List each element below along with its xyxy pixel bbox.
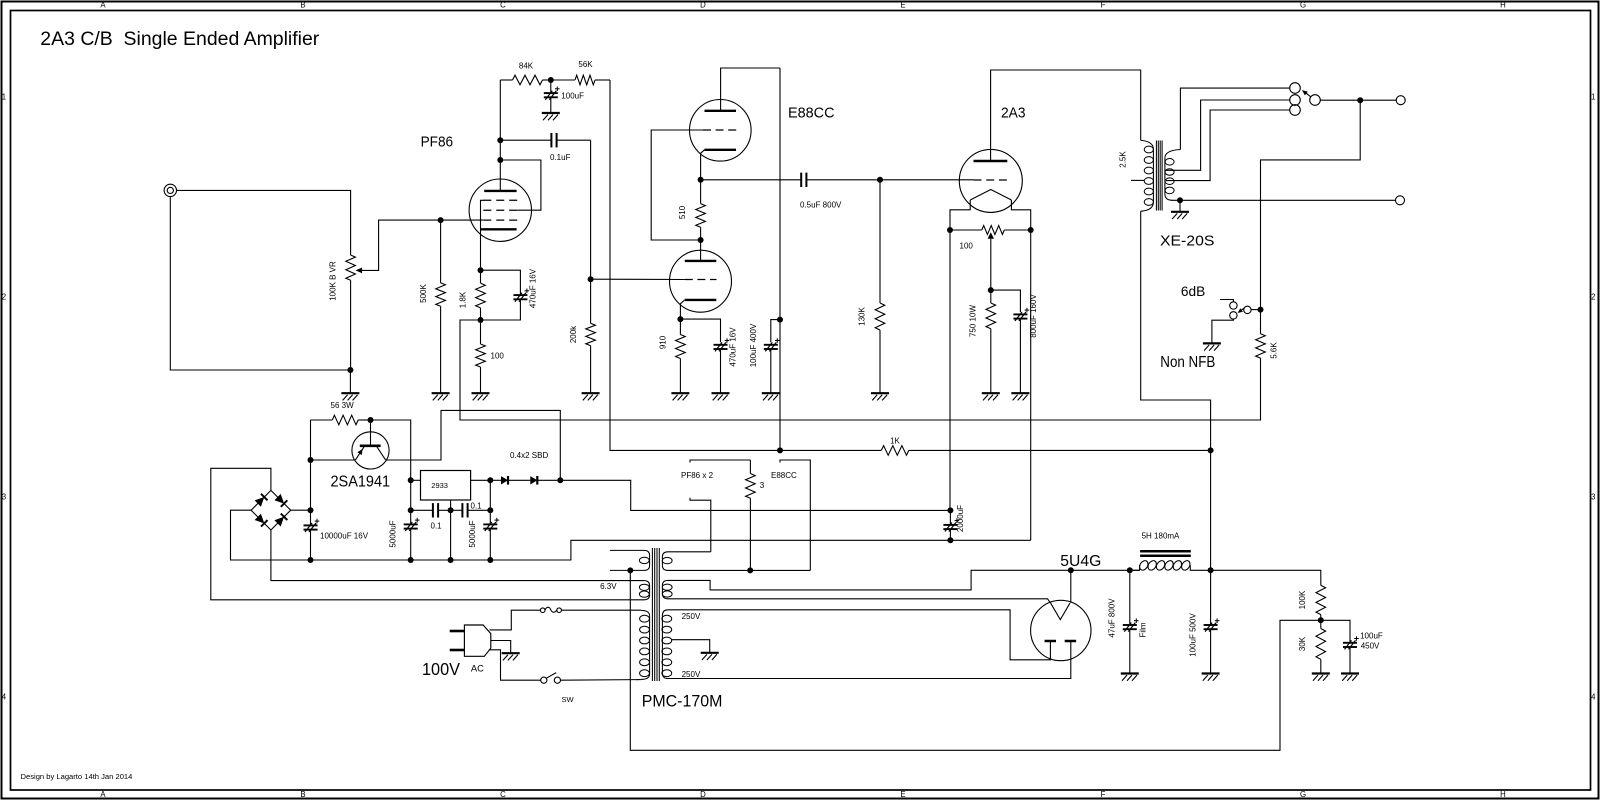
wire jack ground return <box>170 197 347 370</box>
svg-text:5H 180mA: 5H 180mA <box>1142 532 1180 541</box>
resistor 56K <box>551 60 610 85</box>
capacitor 0.5uF 800V <box>701 173 974 210</box>
wire regulated feed <box>560 480 950 510</box>
transformer XE-20S core <box>1156 141 1162 211</box>
wire plug line <box>490 610 541 630</box>
label 0.4x2 SBD <box>510 451 548 460</box>
svg-text:100V: 100V <box>422 659 460 679</box>
node E88CC lower cathode <box>677 316 683 322</box>
capacitor 10000uF 16V <box>304 460 369 560</box>
resistor 100 PF86 cathode <box>476 320 505 393</box>
switch SW upper <box>540 607 561 612</box>
wire 5V lead A <box>668 570 1071 590</box>
svg-text:470uF 16V: 470uF 16V <box>529 268 538 308</box>
wire bridge AC top <box>211 468 644 600</box>
wire PF86 suppressor-cathode <box>481 200 485 270</box>
hum pot wiper <box>988 232 994 290</box>
svg-text:510: 510 <box>678 205 687 219</box>
ground AC plug <box>502 653 520 660</box>
capacitor 47uF 800V Film <box>1108 570 1148 673</box>
selector contact 4ohm <box>1290 105 1301 116</box>
svg-text:1.8K: 1.8K <box>459 291 468 308</box>
ground 100uF 450V <box>1341 674 1359 681</box>
ground 47uF <box>1121 674 1139 681</box>
label 250V upper <box>682 612 701 621</box>
svg-text:Non NFB: Non NFB <box>1160 354 1215 371</box>
ground 100uF <box>542 113 560 120</box>
wire 2A3 filament right <box>1011 200 1030 540</box>
node plate supply junction <box>1208 447 1214 453</box>
node 5000uF input top <box>408 507 414 513</box>
node regulator gnd rail <box>448 557 454 563</box>
svg-text:5000uF: 5000uF <box>468 520 477 547</box>
label AC <box>471 664 484 675</box>
wire E88CC lower grid <box>591 278 685 280</box>
node 3 ohm return <box>747 567 753 573</box>
resistor 910 <box>659 319 686 393</box>
svg-text:6.3V: 6.3V <box>600 582 617 591</box>
node 5000uF output top <box>487 507 493 513</box>
pot wiper arrow <box>356 220 441 273</box>
svg-text:910: 910 <box>659 335 668 349</box>
switch NFB pole <box>1244 306 1251 313</box>
svg-text:A: A <box>100 790 106 799</box>
svg-text:E: E <box>900 790 905 799</box>
svg-text:SW: SW <box>562 695 575 704</box>
wire B+ line <box>1071 569 1140 571</box>
wire pole to 5.6K <box>1251 309 1260 311</box>
ground 910 <box>671 393 689 400</box>
node 5000uF output bottom <box>487 557 493 563</box>
svg-text:Film: Film <box>1139 622 1148 637</box>
transformer XE-20S secondary <box>1165 150 1181 201</box>
capacitor 0.1uF coupling <box>500 133 590 162</box>
AC plug <box>450 625 491 656</box>
wire base feed <box>371 420 411 480</box>
svg-text:5000uF: 5000uF <box>388 520 397 547</box>
choke 5H 180mA <box>1130 551 1211 571</box>
label 100V <box>422 659 460 679</box>
diode SBD2 <box>509 476 561 485</box>
wire NFB return <box>460 320 1261 420</box>
svg-text:F: F <box>1101 790 1106 799</box>
diode SBD1 <box>490 476 508 485</box>
node PF86 screen tap <box>497 157 503 163</box>
node filament right <box>1028 227 1034 233</box>
svg-text:2A3: 2A3 <box>1001 104 1026 121</box>
node grid junction <box>438 217 444 223</box>
node regulator gnd pin <box>448 507 454 513</box>
wire plug neutral <box>489 650 541 680</box>
svg-text:47uF 800V: 47uF 800V <box>1108 598 1117 638</box>
resistor 500K <box>419 220 446 393</box>
label 2.5K <box>1119 151 1128 168</box>
svg-text:XE-20S: XE-20S <box>1160 233 1214 250</box>
svg-text:B: B <box>300 790 305 799</box>
svg-text:800uF 160V: 800uF 160V <box>1029 294 1038 338</box>
wire filament return <box>950 539 1030 541</box>
svg-text:C: C <box>500 790 506 799</box>
transformer XE-20S primary 2.5K <box>1141 140 1154 211</box>
node 84K-56K junction <box>548 77 554 83</box>
svg-text:3: 3 <box>2 493 6 502</box>
switch 6dB contact <box>1220 300 1237 310</box>
primary tap stub <box>1131 179 1144 181</box>
node base junction <box>368 417 374 423</box>
node diode out <box>557 477 563 483</box>
wire 56 3W to emitter <box>310 420 312 460</box>
selector contact 16ohm <box>1290 83 1301 94</box>
svg-text:100K: 100K <box>1298 590 1307 609</box>
node choke output <box>1208 567 1214 573</box>
wire E88CC upper grid <box>651 130 703 240</box>
label 250V lower <box>682 670 701 679</box>
svg-text:H: H <box>1500 790 1506 799</box>
wire B+ drop E88CC <box>779 68 781 450</box>
capacitor 470uF 16V E88CC <box>680 319 737 393</box>
svg-text:100uF 500V: 100uF 500V <box>1188 613 1197 657</box>
label E88CC <box>788 105 835 122</box>
svg-text:250V: 250V <box>682 670 701 679</box>
wire PF86 screen <box>500 160 541 210</box>
svg-text:3: 3 <box>760 481 765 490</box>
heater bus PF86 <box>681 460 750 480</box>
node filament left <box>947 227 953 233</box>
node NFB node <box>1258 307 1264 313</box>
label XE-20S <box>1160 233 1214 250</box>
wire coupling to E88CC grid <box>590 140 592 279</box>
wire 5V lead B <box>668 599 1051 603</box>
svg-text:E88CC: E88CC <box>788 105 835 122</box>
wire bias to heater winding <box>630 570 1321 750</box>
wire secondary tap 4ohm <box>1166 110 1290 181</box>
wire plug earth <box>491 641 511 653</box>
wire E88CC lower cathode <box>680 300 684 319</box>
capacitor 100uF 400V <box>749 320 780 393</box>
heater bus E88CC <box>771 460 810 570</box>
svg-text:PF86 x 2: PF86 x 2 <box>681 471 714 480</box>
svg-text:F: F <box>1101 1 1106 10</box>
node 47uF tap <box>1127 567 1133 573</box>
svg-text:1: 1 <box>2 93 6 102</box>
switch SW lower <box>541 673 561 684</box>
ground 100uF 400V <box>762 393 780 400</box>
capacitor 100uF 450V <box>1321 620 1383 673</box>
svg-text:100uF: 100uF <box>561 92 584 101</box>
wire B+ to bleeder <box>1211 570 1321 585</box>
svg-text:A: A <box>100 1 106 10</box>
svg-text:0.1: 0.1 <box>471 501 483 510</box>
svg-text:0.1uF: 0.1uF <box>550 153 571 162</box>
svg-text:2: 2 <box>2 293 6 302</box>
ground secondary <box>1171 212 1189 219</box>
resistor 84K <box>500 61 551 85</box>
node 2A3 cathode <box>988 287 994 293</box>
svg-text:6dB: 6dB <box>1181 283 1205 299</box>
svg-text:0.1: 0.1 <box>431 521 443 530</box>
label 5U4G <box>1060 553 1101 570</box>
label 6.3V <box>600 582 617 591</box>
capacitor 5000uF output <box>468 480 499 560</box>
node input ground <box>347 367 353 393</box>
svg-text:0.4x2 SBD: 0.4x2 SBD <box>510 451 548 460</box>
wire secondary tap 8ohm <box>1166 100 1290 170</box>
wire plate supply drop <box>1141 211 1211 570</box>
svg-text:2000uF: 2000uF <box>956 505 965 532</box>
transformer PMC-170M core <box>652 548 659 681</box>
svg-text:450V: 450V <box>1361 642 1380 651</box>
input jack J1 <box>164 184 176 196</box>
ground 500K <box>432 393 450 400</box>
svg-text:470uF 16V: 470uF 16V <box>729 327 738 367</box>
regulator 2933 <box>411 471 491 561</box>
label PMC-170M <box>642 692 723 711</box>
label SW <box>562 695 575 704</box>
potentiometer 100K B VR <box>329 255 356 301</box>
resistor 130K grid <box>858 180 885 393</box>
node 2000uF top <box>947 507 953 513</box>
wire 6.3V top lead <box>668 551 711 553</box>
wire pole to output terminal <box>1320 99 1396 101</box>
svg-text:2: 2 <box>1591 293 1595 302</box>
resistor 750 10W <box>968 290 995 393</box>
svg-text:100K B VR: 100K B VR <box>329 261 338 301</box>
node bleeder tap <box>1318 617 1324 623</box>
wire emitter <box>311 459 356 461</box>
winding 5V rectifier filament <box>662 580 672 598</box>
ground 750 <box>982 393 1000 400</box>
tube E88CC lower triode <box>670 250 732 312</box>
svg-text:E: E <box>900 1 905 10</box>
svg-text:500K: 500K <box>419 283 428 302</box>
node 2A3 grid junction <box>877 177 883 183</box>
wire pot bottom <box>350 280 352 370</box>
ground 30K <box>1312 674 1330 681</box>
selector pole <box>1310 95 1321 106</box>
capacitor 0.1 input <box>411 503 451 530</box>
wire SW lower to primary <box>561 679 641 682</box>
winding 6.3V secondary <box>662 552 672 571</box>
svg-text:750 10W: 750 10W <box>968 305 977 337</box>
svg-text:250V: 250V <box>682 612 701 621</box>
design credit text <box>21 772 133 781</box>
label PF86 <box>421 134 454 151</box>
transistor 2SA1941 <box>352 420 389 469</box>
wire bridge AC bottom <box>271 530 644 581</box>
label Non NFB <box>1160 354 1215 371</box>
wire secondary tap 16ohm <box>1180 88 1289 149</box>
wire 6.3V bottom lead <box>668 569 810 571</box>
svg-text:5.6K: 5.6K <box>1269 342 1278 359</box>
svg-text:2.5K: 2.5K <box>1119 151 1128 168</box>
capacitor 470uF 16V PF86 <box>481 268 538 320</box>
node bias injection <box>627 567 633 573</box>
svg-text:D: D <box>700 790 706 799</box>
ground 470uF E88CC <box>712 393 730 400</box>
ground input <box>341 393 359 400</box>
svg-text:100: 100 <box>491 352 505 361</box>
wire HV upper 250V <box>668 610 1050 660</box>
winding primary 100V <box>640 610 650 679</box>
wire 2A3 plate <box>991 70 1141 161</box>
svg-text:AC: AC <box>471 664 484 675</box>
svg-text:1: 1 <box>1591 93 1595 102</box>
ground 130K <box>871 393 889 400</box>
wire SW upper to primary <box>561 609 641 611</box>
svg-text:2933: 2933 <box>431 481 448 490</box>
svg-text:PMC-170M: PMC-170M <box>642 692 723 711</box>
resistor 1.8K cathode <box>459 270 486 320</box>
wire bridge minus <box>231 510 951 560</box>
svg-text:3: 3 <box>1591 493 1595 502</box>
svg-text:200k: 200k <box>569 325 578 343</box>
bridge rectifier <box>251 490 291 530</box>
wire jack to volume pot <box>177 190 351 255</box>
title text <box>40 29 320 50</box>
tube PF86 <box>469 179 531 241</box>
wire E88CC upper cathode <box>701 150 705 180</box>
node 5000uF input bottom <box>408 557 414 563</box>
svg-text:30K: 30K <box>1298 636 1307 651</box>
winding 6.3V bridge supply <box>639 581 649 600</box>
svg-text:Design by Lagarto 14th Jan 201: Design by Lagarto 14th Jan 2014 <box>21 772 133 781</box>
wire 5U4G filament out <box>1070 570 1072 603</box>
svg-text:4: 4 <box>2 693 7 702</box>
svg-text:PF86: PF86 <box>421 134 454 151</box>
svg-text:2SA1941: 2SA1941 <box>331 474 391 491</box>
svg-text:G: G <box>1300 1 1306 10</box>
node 10000uF minus <box>308 557 314 563</box>
node E88CC cathode out <box>698 177 704 183</box>
ground NFB switch <box>1203 343 1221 350</box>
resistor 30K bleeder <box>1298 620 1326 673</box>
resistor 200k grid leak <box>569 279 595 392</box>
wire HV center tap <box>672 640 710 653</box>
label 5H 180mA <box>1142 532 1180 541</box>
node bridge plus <box>308 507 314 513</box>
ground HV center tap <box>701 653 719 660</box>
wire 2A3 filament left <box>950 200 970 510</box>
wire grid PF86 <box>441 219 484 221</box>
ground 100 <box>472 393 490 400</box>
tube E88CC upper triode <box>690 100 752 162</box>
resistor 56 3W <box>311 401 371 425</box>
selector wiper arrow <box>1302 90 1311 97</box>
winding 6.3V heater elevated <box>610 550 650 570</box>
switch NonNFB contact <box>1212 312 1237 343</box>
svg-text:4: 4 <box>1591 693 1596 702</box>
wire bridge plus <box>291 509 311 511</box>
heater bus return <box>690 498 711 552</box>
node 200k junction <box>588 276 594 282</box>
svg-text:0.5uF 800V: 0.5uF 800V <box>800 200 842 209</box>
node SRPP midpoint <box>698 237 704 243</box>
winding HV secondary 250-0-250 <box>662 610 672 679</box>
capacitor 100uF 500V <box>1188 570 1219 673</box>
node 2000uF bottom <box>947 537 953 543</box>
wire NFB takeoff <box>1261 100 1361 309</box>
node emitter junction <box>308 457 314 463</box>
svg-text:D: D <box>700 1 706 10</box>
wire HV lower 250V <box>668 641 1071 679</box>
svg-text:5U4G: 5U4G <box>1060 553 1101 570</box>
svg-text:56 3W: 56 3W <box>331 401 355 410</box>
selector contact 8ohm <box>1290 95 1301 106</box>
node regulator output <box>487 477 493 483</box>
ground 200k <box>582 393 600 400</box>
node PF86 cathode NFB node <box>478 317 484 323</box>
capacitor 800uF 160V <box>991 290 1038 393</box>
svg-text:G: G <box>1300 790 1306 799</box>
label 6dB <box>1181 283 1205 299</box>
tube 5U4G <box>1031 600 1091 660</box>
svg-text:B: B <box>300 1 305 10</box>
resistor 3 ohm <box>746 460 765 570</box>
svg-text:56K: 56K <box>578 60 593 69</box>
svg-text:84K: 84K <box>519 61 534 70</box>
svg-text:100uF 400V: 100uF 400V <box>749 323 758 367</box>
svg-text:100uF: 100uF <box>1360 632 1383 641</box>
node B+ bypass tap <box>777 317 783 323</box>
capacitor 0.1 output <box>451 501 491 517</box>
svg-text:10000uF 16V: 10000uF 16V <box>320 532 369 541</box>
svg-text:100: 100 <box>960 241 974 250</box>
label 2SA1941 <box>331 474 391 491</box>
svg-text:H: H <box>1500 1 1506 10</box>
switch NFB wiper <box>1238 308 1245 313</box>
resistor 1K dropper <box>610 80 1211 455</box>
ground 800uF <box>1011 393 1029 400</box>
hum balance pot 100 <box>950 226 1031 251</box>
svg-text:2A3 C/B Single Ended Amplifie: 2A3 C/B Single Ended Amplifier <box>40 29 320 50</box>
output terminal plus <box>1396 96 1405 105</box>
wire PF86 plate <box>499 80 501 191</box>
wire secondary common <box>1172 199 1396 201</box>
node regulator input <box>408 477 414 483</box>
capacitor 5000uF input <box>388 480 419 560</box>
resistor 5.6K NFB <box>1256 310 1279 359</box>
node rectifier output <box>1068 567 1074 573</box>
capacitor 2000uF <box>943 505 965 540</box>
node output junction <box>1357 97 1363 103</box>
output terminal minus <box>1396 196 1405 205</box>
node PF86 cathode junction <box>478 267 484 273</box>
node secondary ground <box>1177 197 1183 211</box>
svg-text:130K: 130K <box>858 306 867 325</box>
wire E88CC lower plate <box>700 240 702 261</box>
wire E88CC upper plate <box>721 68 780 111</box>
resistor 510 <box>678 180 706 240</box>
svg-text:C: C <box>500 1 506 10</box>
label 2A3 <box>1001 104 1026 121</box>
capacitor 100uF screen bypass <box>544 80 584 112</box>
tube 2A3 <box>959 149 1022 212</box>
svg-text:1K: 1K <box>890 436 900 445</box>
node PF86 coupling tap <box>497 137 503 143</box>
wire collector to regulator <box>386 410 561 480</box>
node E88CC B+ tap <box>777 447 783 453</box>
svg-text:E88CC: E88CC <box>771 471 797 480</box>
resistor 100K bleeder <box>1298 585 1326 620</box>
ground 100uF 500V <box>1202 674 1220 681</box>
